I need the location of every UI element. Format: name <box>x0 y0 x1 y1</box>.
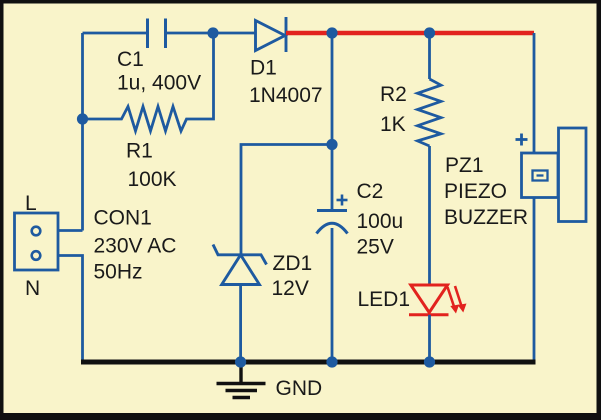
svg-text:GND: GND <box>276 377 323 400</box>
wire buzzer column upper <box>533 33 536 153</box>
piezo buzzer PZ1 <box>522 128 587 222</box>
svg-text:D1: D1 <box>250 57 277 80</box>
LED LED1 <box>409 285 449 315</box>
wire CON1 N to ground <box>58 256 83 361</box>
svg-text:CON1: CON1 <box>94 207 152 230</box>
node R1 left <box>77 113 88 124</box>
node ZD1 branch <box>326 139 337 150</box>
wire LED1 to ground <box>428 315 431 360</box>
node C1-D1 <box>207 27 218 38</box>
wire buzzer to ground <box>533 198 536 361</box>
capacitor C2 <box>317 211 348 234</box>
wire C1 to node <box>166 32 214 35</box>
resistor R2 <box>418 79 442 146</box>
diode D1 <box>256 17 287 52</box>
svg-text:L: L <box>25 192 37 215</box>
wire left vertical <box>81 33 84 231</box>
zener diode ZD1 <box>213 245 267 285</box>
svg-text:C2: C2 <box>357 180 384 203</box>
plus sign C2 <box>337 195 348 206</box>
svg-text:PIEZO: PIEZO <box>444 180 507 203</box>
svg-text:50Hz: 50Hz <box>94 261 143 284</box>
svg-text:25V: 25V <box>357 236 394 259</box>
svg-text:R1: R1 <box>126 140 153 163</box>
svg-text:1u, 400V: 1u, 400V <box>117 72 201 95</box>
svg-text:1N4007: 1N4007 <box>249 84 323 107</box>
connector CON1 <box>15 213 59 270</box>
node red rail R2 <box>424 27 435 38</box>
wire CON1 L stub <box>58 229 83 232</box>
svg-text:100u: 100u <box>357 210 404 233</box>
capacitor C1 <box>148 19 166 49</box>
svg-text:R2: R2 <box>380 83 407 106</box>
svg-text:100K: 100K <box>128 168 177 191</box>
wire node to D1 <box>213 32 256 35</box>
svg-text:12V: 12V <box>272 277 309 300</box>
node ground LED1 <box>424 356 435 367</box>
ground symbol <box>217 364 266 398</box>
svg-text:LED1: LED1 <box>358 288 411 311</box>
svg-text:1K: 1K <box>380 113 406 136</box>
node ground ZD1 <box>235 356 246 367</box>
wire R2 top <box>428 35 431 79</box>
node ground C2 <box>326 356 337 367</box>
wire ground rail <box>81 360 536 365</box>
node red rail C2 <box>326 27 337 38</box>
svg-text:C1: C1 <box>117 48 144 71</box>
wire C2 column upper <box>331 35 334 210</box>
svg-text:N: N <box>25 277 40 300</box>
svg-text:ZD1: ZD1 <box>273 252 313 275</box>
wire ZD1 branch <box>241 145 332 255</box>
wire red positive rail <box>286 31 534 35</box>
svg-text:230V AC: 230V AC <box>94 235 177 258</box>
svg-text:PZ1: PZ1 <box>445 154 484 177</box>
wire top rail left <box>83 32 148 35</box>
wire R2 to LED1 <box>428 146 431 285</box>
svg-text:BUZZER: BUZZER <box>444 206 528 229</box>
wire C2 column lower <box>331 228 334 360</box>
LED1 arrows <box>448 286 466 313</box>
resistor R1 <box>83 33 214 131</box>
plus sign buzzer <box>516 134 528 146</box>
wire ZD1 to ground <box>239 285 242 361</box>
